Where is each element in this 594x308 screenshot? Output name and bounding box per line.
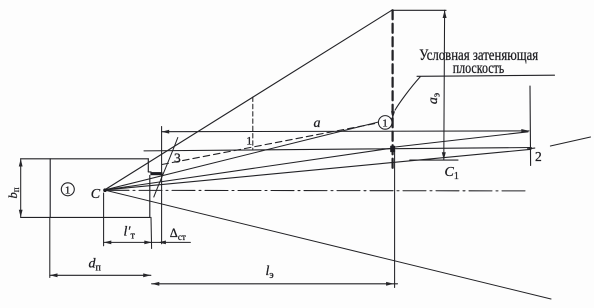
step horizontal — [148, 171, 151, 173]
d right arrow — [143, 273, 151, 277]
svg-text:l′т: l′т — [124, 225, 136, 242]
d left arrow — [50, 273, 58, 277]
far right detached segment — [550, 137, 590, 146]
svg-text:lэ: lэ — [266, 264, 274, 281]
centerline dash-dot — [106, 189, 528, 192]
box right edge lower part — [149, 176, 151, 218]
delta st arrow — [158, 241, 166, 245]
plane underline — [417, 75, 555, 76]
svg-text:1: 1 — [246, 134, 252, 148]
pantograph box top edge with b ext — [21, 158, 149, 160]
circled point 1 balloon (white fill occludes lines) — [378, 116, 392, 130]
leader arrowhead down — [391, 111, 395, 119]
extension below box right edge — [150, 217, 153, 248]
l't and Delta dimension line — [104, 241, 191, 243]
step corner vertical — [147, 159, 149, 172]
fan wire C down right — [105, 190, 552, 299]
svg-text:1: 1 — [65, 185, 71, 197]
a3 top arrow — [443, 10, 447, 18]
dashed sight line to point 1 — [162, 121, 391, 165]
apex horizontal extension line — [392, 9, 446, 11]
circled 1 element mark left — [61, 183, 74, 196]
b dim vertical line — [20, 159, 22, 218]
l3 left arrow — [152, 282, 160, 286]
a dimension line — [162, 130, 530, 133]
l3 dimension line — [152, 283, 398, 285]
a dim left arrow — [162, 130, 170, 134]
arc trajectory leader for 3 — [154, 138, 178, 198]
thick dashed axis vertical (conditional plane axis) — [391, 10, 393, 168]
svg-text:a: a — [314, 116, 321, 131]
l3 right arrow — [386, 282, 394, 286]
leader from text to point 1 — [395, 77, 421, 111]
svg-text:3: 3 — [174, 151, 181, 166]
contact strip bold bar — [150, 172, 162, 175]
svg-text:плоскость: плоскость — [453, 59, 505, 77]
long vertical extension at strip — [161, 127, 163, 244]
fan wire C to point 1 — [105, 119, 393, 191]
fan wire C to point 2 — [105, 149, 532, 190]
node square on axis — [390, 146, 395, 152]
line from 3 to 2 (upper pantograph line) — [144, 148, 531, 151]
point C dot — [103, 188, 107, 192]
svg-text:dп: dп — [89, 257, 102, 274]
fan wire C to node square — [105, 148, 392, 190]
b dim bottom arrow — [19, 210, 23, 218]
l't extension line below C — [103, 193, 105, 246]
svg-text:2: 2 — [535, 149, 542, 164]
a dim right arrow — [521, 129, 529, 133]
box bottom edge with b ext — [21, 216, 150, 218]
d dimension line — [50, 274, 151, 276]
l't right arrow — [144, 241, 152, 245]
extension dashed vertical at point 1' — [252, 97, 254, 149]
svg-text:1: 1 — [382, 118, 388, 130]
rising line node to a-arrow — [395, 132, 528, 147]
point 2 vertical extension — [529, 86, 532, 166]
d dim left extension — [49, 217, 51, 277]
a3 bottom arrow — [442, 152, 446, 160]
a3 dimension line — [443, 10, 446, 160]
svg-text:aэ: aэ — [426, 93, 443, 104]
svg-text:Δст: Δст — [170, 226, 186, 242]
box left edge — [49, 159, 51, 218]
short C1 plane line — [410, 159, 458, 161]
end tick at 2 — [528, 147, 535, 150]
wire C to apex (big diagonal) — [105, 10, 392, 190]
b dim top arrow — [19, 159, 23, 167]
svg-text:bп: bп — [6, 187, 21, 198]
thin extension vertical below node to l3 arrow — [394, 150, 396, 288]
svg-text:C: C — [91, 187, 101, 202]
svg-text:C1: C1 — [445, 165, 459, 182]
l't left arrow — [104, 241, 112, 245]
